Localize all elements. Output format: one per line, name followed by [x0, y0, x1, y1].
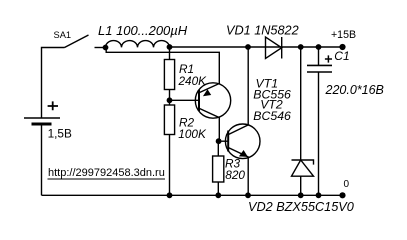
ground terminal 0: [339, 192, 345, 198]
junction node: VD2 top on rail: [298, 44, 304, 50]
wire: battery positive to switch pole: [42, 48, 65, 119]
wire: rail down to C1 top plate: [318, 47, 320, 65]
url underline: [48, 178, 166, 180]
svg-text:L1 100...200µH: L1 100...200µH: [98, 23, 188, 38]
diode VD1 triangle: [266, 37, 282, 59]
svg-text:+15В: +15В: [331, 29, 356, 41]
zener VD2 triangle: [292, 160, 314, 176]
diode VD1 cathode bar: [281, 37, 283, 59]
svg-text:BC546: BC546: [253, 109, 291, 123]
battery GB1 long plate: [24, 117, 60, 119]
inductor L1 winding: [106, 41, 170, 48]
capacitor C1 bottom plate: [307, 71, 332, 73]
wire: rail to R1 top: [169, 47, 171, 60]
svg-text:http://299792458.3dn.ru: http://299792458.3dn.ru: [48, 167, 165, 179]
transistor VT1 emitter diagonal: [199, 84, 219, 93]
wire: VD2 anode to ground rail: [300, 176, 302, 195]
capacitor C1 top plate: [307, 64, 332, 66]
wire: R2 bottom to ground rail: [169, 135, 171, 196]
transistor VT1 emitter arrow (PNP): [203, 89, 211, 96]
wire: C1 bottom plate to ground rail: [318, 72, 320, 195]
svg-text:100K: 100K: [178, 127, 207, 141]
junction node: VT1 collector / VT2 base / R3: [216, 138, 222, 144]
junction node: VD2 at ground: [298, 192, 304, 198]
wire: node to VT2 base: [219, 140, 229, 142]
transistor VT1 collector diagonal and lead to VT2 base node: [199, 108, 219, 141]
battery GB1 short plate: [32, 123, 52, 126]
resistor R3 body: [213, 156, 224, 182]
junction node: C1 at ground: [316, 192, 322, 198]
resistor R1 body: [164, 60, 174, 90]
transistor VT2 circle: [225, 124, 260, 159]
capacitor C1 polarity plus: [325, 55, 332, 62]
junction node: VT2 emitter at ground: [245, 192, 251, 198]
wire: top +15V rail from L1 to output terminal: [170, 46, 343, 48]
svg-text:1,5В: 1,5В: [48, 127, 72, 141]
wire: switch contact to inductor node: [95, 47, 106, 49]
zener VD2 cathode bar with tail: [292, 160, 314, 165]
battery plus sign: [48, 101, 58, 110]
svg-text:SA1: SA1: [54, 30, 72, 40]
transistor VT2 base bar: [227, 131, 229, 152]
junction node: L1 right / R1: [167, 44, 173, 50]
junction node: switch/inductor/VT1-emitter: [103, 45, 109, 51]
wire: rail down to VD2 cathode: [300, 47, 302, 160]
wire: input node down and across to VT1 emitter: [106, 48, 219, 84]
svg-text:VD1 1N5822: VD1 1N5822: [226, 23, 299, 37]
transistor VT2 emitter arrow (NPN): [239, 150, 248, 157]
junction node: R2 at ground: [167, 192, 173, 198]
switch SA1 blade: [65, 35, 89, 48]
junction node: R3 at ground: [215, 192, 221, 198]
wire: battery negative down to ground rail: [41, 124, 43, 195]
resistor R2 body: [164, 105, 174, 135]
wire: R3 bottom to ground rail: [217, 182, 219, 195]
wire: bottom ground rail: [42, 194, 343, 196]
svg-text:220.0*16В: 220.0*16В: [325, 83, 384, 97]
svg-text:0: 0: [344, 179, 350, 190]
wire: divider node to VT1 base: [170, 99, 200, 101]
svg-text:VD2 BZX55C15V0: VD2 BZX55C15V0: [248, 200, 354, 214]
junction node: C1 top on rail: [316, 44, 322, 50]
svg-text:C1: C1: [334, 49, 349, 63]
junction node: VT2 collector on rail: [245, 44, 251, 50]
svg-text:820: 820: [225, 168, 245, 182]
wire: VT2 base node down to R3: [217, 141, 219, 156]
junction node: R1/R2 divider: [167, 97, 173, 103]
wire: R1 bottom to divider node: [169, 90, 171, 106]
svg-text:240K: 240K: [178, 74, 208, 88]
transistor VT1 base bar: [198, 90, 200, 111]
transistor VT2 emitter diagonal and lead down to ground: [228, 148, 248, 196]
output terminal +15V: [339, 44, 345, 50]
transistor VT2 collector diagonal and lead up to rail: [228, 47, 248, 135]
transistor VT1 circle: [195, 83, 230, 118]
